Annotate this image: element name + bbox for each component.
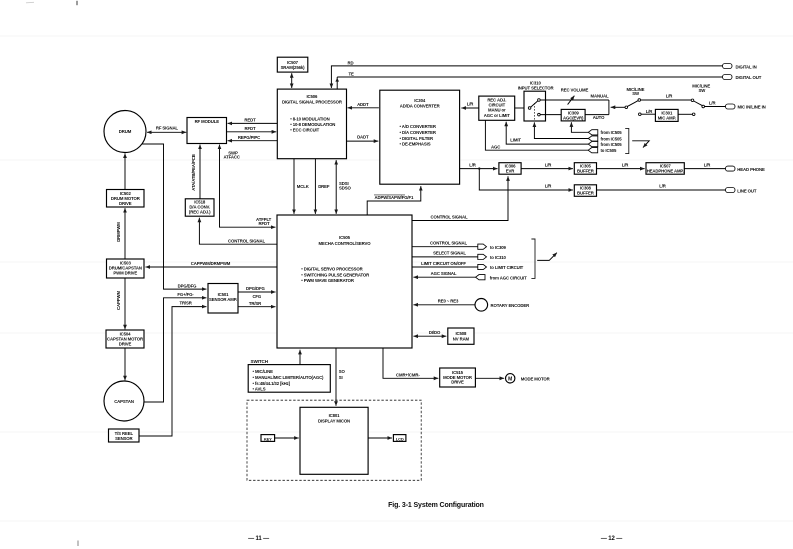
T/S reel sensor [109,429,140,442]
wire from IC505 #1 to IC309 control [571,122,622,135]
svg-text:SDSO: SDSO [339,186,351,191]
svg-text:• PWM WAVE GENERATOR: • PWM WAVE GENERATOR [301,278,355,283]
registration tick bottom [77,541,79,547]
svg-text:M: M [508,376,512,382]
wire REPG/PIPC IC506 to RF module [228,135,278,141]
wire branch to IC308 buffer [479,169,573,190]
svg-text:RE0 ~ RE3: RE0 ~ RE3 [438,299,459,304]
svg-text:L/R: L/R [709,101,717,106]
IC301 mic amp [655,109,678,121]
RF module [187,118,227,144]
IC508 NV RAM [448,328,474,344]
rotary encoder [475,299,530,312]
wire RF SIGNAL (drum to RF module, double arrow) [147,126,186,133]
svg-text:MIC AMP.: MIC AMP. [658,116,676,121]
wire IC309 to junction [585,114,609,116]
svg-text:MIC IN/LINE IN: MIC IN/LINE IN [738,105,766,110]
svg-text:CFG: CFG [252,294,261,299]
svg-text:KEY: KEY [264,436,272,441]
wire IC504 to capstan [124,348,126,380]
svg-text:to IC310: to IC310 [490,255,506,260]
svg-text:from AGC CIRCUIT: from AGC CIRCUIT [490,275,527,280]
svg-text:• AVLS: • AVLS [253,387,266,392]
svg-text:DISPLAY MICON: DISPLAY MICON [318,418,350,423]
svg-text:AGC(EVR): AGC(EVR) [563,115,584,120]
svg-text:MCLK: MCLK [297,184,310,189]
svg-text:L/R: L/R [545,162,553,167]
wire L/R IC306 to IC305 [521,162,573,168]
svg-text:from IC505: from IC505 [601,142,623,147]
wire CMR+/CMR- IC505 to IC515 [383,348,438,378]
IC310 switch lever [531,101,538,107]
svg-text:PWM DRIVE: PWM DRIVE [113,270,137,275]
svg-text:to IC505: to IC505 [601,148,617,153]
wire IC515 to mode motor [475,377,504,379]
svg-text:RFDT: RFDT [259,221,270,226]
svg-text:REDT: REDT [244,118,256,123]
svg-text:• DIGITAL SERVO PROCESSOR: • DIGITAL SERVO PROCESSOR [301,267,363,272]
svg-text:• DE-EMPHASIS: • DE-EMPHASIS [400,142,431,147]
svg-text:L/R: L/R [545,184,553,189]
wire CAPPWM IC503 to IC504 [116,278,125,329]
svg-text:• MANUAL/MIC LIMITER/AUTO(AGC): • MANUAL/MIC LIMITER/AUTO(AGC) [253,375,325,380]
svg-text:IC506: IC506 [306,94,318,99]
svg-text:RF MODULE: RF MODULE [195,119,220,124]
switch-control arrow symbol upper [632,141,649,148]
svg-text:IC508: IC508 [455,331,467,336]
svg-text:DRIVE: DRIVE [119,201,132,206]
svg-text:CAPPWM/DRMPWM: CAPPWM/DRMPWM [191,261,231,266]
wire DADT IC506 to IC304 [347,134,379,141]
node junction headphone/line split [478,167,480,169]
wire L/R IC308 to line out [597,184,726,190]
wire IC502 to drum [124,153,126,189]
svg-text:CONTROL SIGNAL: CONTROL SIGNAL [431,214,468,219]
wire SRAM to IC506 (bidirectional) [291,73,293,88]
svg-text:• A/D CONVERTER: • A/D CONVERTER [400,124,437,129]
SWITCH list box [248,359,330,392]
svg-text:FG+/FG-: FG+/FG- [177,292,194,297]
svg-text:SW: SW [698,88,706,93]
IC507 SRAM(256k) [277,57,308,72]
wire L/R IC507 to head phone [684,162,725,168]
connector LINE OUT [726,188,757,194]
wire SELECT SIGNAL to IC310 [412,251,506,260]
svg-text:DIGITAL IN: DIGITAL IN [736,64,757,69]
svg-text:BUFFER: BUFFER [577,191,595,196]
IC305 buffer [574,163,596,175]
svg-text:ATFACC: ATFACC [224,155,240,160]
IC501 sensor amp [208,284,238,314]
svg-text:LIMIT: LIMIT [510,138,521,143]
IC310 switch common contact [528,107,531,110]
wire CONTROL SIGNAL to IC309 [412,241,506,250]
svg-text:CONTROL SIGNAL: CONTROL SIGNAL [430,241,467,246]
svg-text:IC801: IC801 [329,413,341,418]
svg-text:L/R: L/R [622,162,630,167]
wire SWP ATFACC / ATFPLT RFDT between RF module and IC505 [220,145,276,228]
svg-text:• SWITCHING PULSE GENERATOR: • SWITCHING PULSE GENERATOR [301,272,370,277]
IC503 drum/capstan PWM drive [107,259,145,278]
svg-text:ROTARY ENCODER: ROTARY ENCODER [491,303,531,308]
svg-text:• D/A CONVERTER: • D/A CONVERTER [400,130,437,135]
svg-text:• MIC/LINE: • MIC/LINE [253,369,274,374]
svg-text:SENSOR AMP.: SENSOR AMP. [209,297,237,302]
svg-text:SI: SI [339,375,343,380]
wire T/S reel TR/SR to IC501 [139,301,206,436]
wire RFDT RF module to IC506 [227,126,277,132]
svg-text:DREF: DREF [318,184,330,189]
wire L/R to MIC IN/LINE IN [705,101,726,107]
IC801 display micon [300,407,368,474]
dashed display section box [247,400,421,480]
wire KEY to IC801 [275,437,299,439]
LCD box [393,435,406,442]
wire L/R line between switches [641,94,691,101]
svg-text:— 11 —: — 11 — [248,536,269,542]
IC310 switch top contact [538,99,541,102]
svg-text:MANUAL: MANUAL [591,94,609,99]
wire SO SI IC505 to IC801 [336,348,346,406]
wire L/R IC305 to IC507 [597,162,645,168]
svg-text:AGC: AGC [491,144,500,149]
svg-text:LCD: LCD [396,436,404,441]
svg-text:L/R: L/R [704,162,712,167]
svg-text:DRIVE: DRIVE [451,380,464,385]
svg-text:• 10-8 DEMODULATION: • 10-8 DEMODULATION [290,122,335,127]
svg-text:HEADPHONE AMP.: HEADPHONE AMP. [647,169,684,174]
svg-text:TE: TE [349,71,355,76]
wire L/R REC ADJ to IC304 [461,102,478,108]
wire MIC/LINE SW to junction [611,106,625,108]
svg-text:RFDT: RFDT [245,126,256,131]
svg-text:CONTROL SIGNAL: CONTROL SIGNAL [228,238,265,243]
wire from IC505 #3 LIMIT to REC ADJ [506,122,622,147]
svg-text:L/R: L/R [646,109,654,114]
wire MCLK IC506 to IC505 [294,159,310,214]
svg-text:LIMIT CIRCUIT ON/OFF: LIMIT CIRCUIT ON/OFF [421,261,466,266]
wire control signal IC505 to IC306 EVR [412,176,508,220]
svg-text:DRUM: DRUM [119,129,132,134]
IC504 capstan motor drive [106,330,144,348]
svg-text:AD/DA CONVERTER: AD/DA CONVERTER [400,103,441,108]
wire IC801 to LCD [368,437,392,439]
svg-text:L/R: L/R [666,94,674,99]
IC502 drum motor drive [107,190,145,208]
svg-text:RF SIGNAL: RF SIGNAL [156,126,179,131]
svg-text:from IC505: from IC505 [601,130,623,135]
wire ADPW/SAPW/FG/F1 IC505 to IC304 [367,186,421,215]
svg-text:• fs:48/44.1/32 [kHz]: • fs:48/44.1/32 [kHz] [253,381,291,386]
svg-text:SWITCH: SWITCH [251,359,269,364]
svg-text:L/R: L/R [467,102,475,107]
svg-text:DIGITAL SIGNAL PROCESSOR: DIGITAL SIGNAL PROCESSOR [282,99,343,104]
bracket for IC505 right-side signals [531,239,535,278]
svg-text:SRAM(256k): SRAM(256k) [281,65,306,70]
svg-text:DPG/DFG: DPG/DFG [246,286,266,291]
mode motor M [506,374,551,383]
switch-control arrow symbol [537,253,557,261]
left MIC/LINE SW [625,87,645,116]
KEY box [261,435,275,442]
wire DI/DO IC505 to IC508 (bidirectional) [413,330,446,336]
wire CAPPWM/DRMPWM IC505 to IC503 [146,261,278,267]
IC506 digital signal processor [277,89,346,159]
svg-text:Fig. 3-1 System Configuration: Fig. 3-1 System Configuration [388,502,484,509]
IC308 buffer [574,185,596,197]
svg-text:DI/DO: DI/DO [429,330,441,335]
connector MIC IN/LINE IN [726,104,766,110]
connector HEAD PHONE [726,166,766,172]
svg-text:(REC ADJ.): (REC ADJ.) [189,210,211,215]
wire AGC SIGNAL from AGC circuit to IC505 [413,271,527,280]
wire AUTO path IC310 to IC309 [540,115,605,120]
svg-text:AUTO: AUTO [593,115,605,120]
svg-text:SELECT SIGNAL: SELECT SIGNAL [433,251,466,256]
wire LIMIT CIRCUIT ON/OFF [412,261,524,270]
svg-text:LINE OUT: LINE OUT [737,188,757,193]
wire REDT IC506 to RF module [228,118,278,124]
svg-text:REPG/PIPC: REPG/PIPC [238,135,260,140]
svg-text:CAPPWM: CAPPWM [116,291,121,310]
capstan CAPSTAN [104,381,144,421]
wire control signal IC505 to IC518 [199,218,277,245]
svg-text:DRMPWM: DRMPWM [116,222,121,242]
svg-text:— 12 —: — 12 — [601,536,622,542]
svg-text:RD: RD [348,60,354,65]
svg-text:SO: SO [339,369,346,374]
svg-text:CMR+/CMR-: CMR+/CMR- [396,373,420,378]
wire L/R IC304 playback out to IC306 [460,162,498,168]
bracket for from/to IC505 group [625,128,629,153]
svg-text:to LIMIT CIRCUIT: to LIMIT CIRCUIT [490,265,524,270]
wire DRMPWM IC503 to IC502 [116,208,125,259]
IC505 mecha control/servo [277,215,412,348]
svg-text:• ECC CIRCUIT: • ECC CIRCUIT [290,127,319,132]
IC518 D/A converter (rec adj) [185,199,214,216]
wire L/R to IC301 mic amp [641,109,655,114]
svg-text:DRIVE: DRIVE [119,341,132,346]
wire RD digital in to IC506 [331,60,722,88]
wire ATA/ATB/PEA/PCB IC518 to RF module [191,145,200,199]
svg-text:MODE MOTOR: MODE MOTOR [521,376,551,381]
wire ADDT IC304 to IC506 [348,102,379,108]
IC304 AD/DA converter [380,90,460,184]
wire DREF IC506 to IC505 [315,159,330,214]
svg-text:AGC or LIMIT: AGC or LIMIT [484,113,511,118]
registration tick top [76,1,78,5]
wire drum DPG/DFG to IC501 [142,144,207,289]
svg-text:ADDT: ADDT [357,102,369,107]
wire IC501 out DPG/DFG CFG to IC505 [238,286,276,299]
svg-text:AGC SIGNAL: AGC SIGNAL [431,271,457,276]
wire AGC REC ADJ to IC505 [485,120,617,153]
svg-text:to IC309: to IC309 [490,245,506,250]
REC VOLUME potentiometer [561,88,589,105]
svg-text:from IC505: from IC505 [601,136,623,141]
svg-text:L/R: L/R [469,162,477,167]
svg-text:INPUT SELECTOR: INPUT SELECTOR [518,85,555,90]
IC309 AGC(EVR) [561,109,585,121]
wire IC301 to right switch [678,113,692,115]
IC306 EVR [499,163,521,175]
wire SDSI SDSO IC506 to IC505 (bidirectional) [336,160,351,214]
IC507 headphone amp [646,163,684,175]
svg-text:L/R: L/R [659,184,667,189]
wire RE0~RE3 rotary encoder to IC505 [413,299,475,305]
drum DRUM [104,111,146,153]
svg-text:EVR: EVR [506,169,515,174]
svg-text:NV RAM: NV RAM [453,336,470,341]
IC310 select linkage (dashed) [533,103,535,120]
svg-text:ATA/ATB/PEA/PCB: ATA/ATB/PEA/PCB [191,154,196,190]
connector DIGITAL IN [723,64,757,70]
svg-text:TR/SR: TR/SR [179,301,192,306]
svg-text:SENSOR: SENSOR [115,436,133,441]
svg-text:REC VOLUME: REC VOLUME [561,88,589,93]
svg-text:• 8-10 MODULATION: • 8-10 MODULATION [290,116,329,121]
connector DIGITAL OUT [723,75,762,80]
svg-text:MECHA CONTROL/SERVO: MECHA CONTROL/SERVO [319,241,372,246]
svg-text:CAPSTAN: CAPSTAN [114,399,134,404]
IC310 switch bottom contact [538,113,541,116]
svg-text:TR/SR: TR/SR [249,301,262,306]
svg-text:DPG/DFG: DPG/DFG [178,283,198,288]
IC310 input selector [518,80,555,121]
svg-text:• DIGITAL FILTER: • DIGITAL FILTER [400,136,434,141]
svg-text:DIGITAL OUT: DIGITAL OUT [736,75,762,80]
svg-text:HEAD PHONE: HEAD PHONE [737,167,765,172]
svg-text:BUFFER: BUFFER [577,169,595,174]
junction vertical manual/auto [608,100,610,115]
wire capstan FG+/FG- to IC501 [144,292,206,402]
svg-text:ADPW/SAPW/FG/F1: ADPW/SAPW/FG/F1 [375,195,415,200]
wire SWITCH to IC505 [299,350,301,365]
wire IC501 out TR/SR to IC505 [238,301,276,307]
registration tick top-left faint [26,1,34,4]
wire MANUAL path with REC VOLUME [540,94,609,100]
wire TE IC506 to digital out [335,71,722,89]
svg-text:SW: SW [632,91,640,96]
right MIC/LINE SW [691,84,710,116]
REC ADJ circuit box [479,96,515,120]
IC515 mode motor drive [440,368,476,387]
svg-text:DADT: DADT [357,134,369,139]
svg-text:IC505: IC505 [339,235,351,240]
wire from IC505 #2 to IC310 select [534,122,622,141]
wire REC ADJ to IC310 [515,107,529,109]
